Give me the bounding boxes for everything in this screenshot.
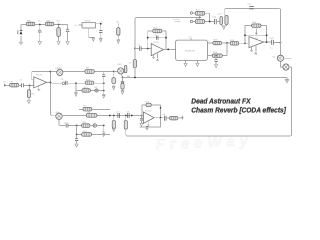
svg-text:TL072: TL072 [36, 74, 43, 76]
capacitor C24 [121, 78, 124, 83]
node out flag [181, 116, 184, 120]
wire 9V input rail [21, 24, 68, 26]
resistor R12 [170, 116, 178, 120]
ground [140, 123, 143, 126]
node 9V [37, 20, 41, 25]
trimmer VR1 [55, 68, 63, 76]
ground [57, 42, 60, 45]
ground [184, 60, 187, 66]
node [75, 82, 77, 84]
wire [24, 85, 34, 87]
wire feedback lower [148, 37, 166, 39]
resistor R11a [195, 10, 205, 16]
svg-text:BTDR-2H: BTDR-2H [185, 51, 195, 53]
wire regulator gnd pin [89, 28, 94, 37]
node [266, 41, 268, 43]
resistor R4 [124, 66, 127, 73]
node [113, 115, 115, 117]
wire [205, 13, 210, 21]
resistor R20 [85, 79, 94, 84]
wire vref to opamp [140, 118, 161, 127]
svg-text:Dead Astronaut FX: Dead Astronaut FX [191, 96, 251, 105]
capacitor C14 [215, 55, 218, 64]
ground [121, 91, 124, 95]
resistor R5 [112, 72, 116, 87]
svg-text:TL072: TL072 [145, 110, 152, 112]
resistor R3 [85, 68, 94, 74]
capacitor C16 [38, 25, 41, 42]
svg-text:DWELL: DWELL [55, 68, 63, 70]
capacitor C3 electrolytic [129, 49, 137, 78]
capacitor C23 [102, 72, 105, 95]
svg-text:TL072: TL072 [153, 42, 160, 44]
wire [205, 21, 214, 23]
wire opamp out [154, 117, 164, 119]
capacitor C4 [138, 45, 142, 51]
wire [222, 42, 231, 44]
wire opamp3 out [164, 49, 176, 51]
resistor R22 feedback [148, 27, 166, 49]
capacitor C21 electrolytic [222, 13, 228, 24]
capacitor C9 [162, 114, 166, 121]
capacitor C7a [117, 111, 121, 118]
wire [283, 57, 292, 59]
ground [112, 128, 115, 131]
wire vref rail [123, 77, 288, 79]
wire row2 [76, 83, 104, 92]
resistor R18 [213, 40, 222, 45]
node vref [134, 48, 136, 50]
resistor R9 [112, 116, 115, 131]
ground [102, 95, 105, 99]
wire [178, 117, 181, 119]
ground [152, 55, 155, 59]
wire brick out2 [207, 55, 212, 57]
ground [99, 38, 102, 42]
node [160, 117, 162, 119]
ground [112, 86, 115, 90]
svg-text:Chasm Reverb [CODA effects]: Chasm Reverb [CODA effects] [191, 106, 286, 115]
node [50, 71, 52, 73]
node [209, 21, 211, 23]
pot DEPTH feedback [245, 22, 267, 43]
node [76, 125, 78, 127]
ground [285, 78, 289, 84]
resistor R26 [45, 20, 54, 26]
resistor R14 [82, 131, 92, 136]
capacitor C19 [96, 31, 102, 38]
node vref stub [255, 45, 258, 54]
wire [69, 125, 82, 127]
node [266, 34, 268, 36]
ground [27, 98, 30, 104]
wire op2 out row [50, 81, 103, 84]
node [103, 90, 105, 92]
wire send rail [50, 71, 113, 73]
resistor R25 [26, 20, 35, 26]
capacitor C5 [153, 35, 158, 40]
resistor R11 feedback [142, 102, 161, 121]
op-amp U3a [151, 42, 163, 56]
wire regulator input [78, 24, 82, 26]
node [147, 48, 149, 50]
wire [117, 23, 119, 40]
node vref stub [156, 54, 159, 61]
node [244, 42, 246, 44]
wire [167, 117, 170, 119]
wire bottom loop [126, 67, 292, 136]
node [109, 115, 111, 117]
ground [147, 121, 150, 126]
wire [19, 85, 21, 87]
op-amp U2a [143, 110, 154, 123]
wire [222, 43, 227, 56]
ground [250, 47, 253, 52]
ground [146, 127, 149, 130]
wire lower row [77, 126, 110, 135]
capacitor C13 [269, 38, 274, 50]
resistor R10 [124, 116, 127, 130]
capacitor C11 [75, 135, 78, 144]
svg-text:MIX: MIX [118, 64, 122, 66]
diode D1 [18, 30, 23, 34]
node [103, 82, 105, 84]
op-amp U3b [249, 37, 264, 48]
wire [142, 48, 152, 50]
capacitor C17 electrolytic [54, 25, 60, 42]
wire pot wiper [121, 74, 123, 78]
wire feedback [32, 72, 34, 80]
resistor R2 [27, 86, 35, 98]
node [29, 85, 31, 87]
ground [215, 65, 218, 68]
capacitor C22 electrolytic [113, 28, 120, 36]
ground [19, 42, 23, 45]
ground [37, 86, 40, 91]
node [147, 37, 149, 39]
node input flag [4, 82, 7, 87]
ground [38, 41, 41, 45]
connector P2 [190, 20, 195, 22]
node [122, 77, 124, 79]
svg-text:FreeWay: FreeWay [155, 132, 253, 152]
node [226, 42, 228, 44]
pot MIX [114, 64, 124, 74]
node [280, 42, 282, 44]
wire diode branch [20, 25, 22, 43]
capacitor C18 [66, 30, 69, 41]
capacitor C2 [127, 76, 130, 78]
capacitor C1 [20, 80, 24, 88]
node to +9v flag [174, 16, 202, 23]
capacitor C6 [61, 79, 68, 85]
node [160, 107, 162, 109]
resistor R8 [86, 112, 97, 117]
capacitor C10 [64, 122, 69, 127]
node [244, 34, 246, 36]
node [50, 81, 52, 83]
resistor R6 [121, 83, 124, 90]
ground [75, 144, 78, 147]
node [134, 77, 136, 79]
pot TONE [281, 61, 290, 70]
reverb module BTDR-2H [176, 36, 208, 60]
node [76, 134, 78, 136]
ground [196, 60, 199, 66]
regulator U2 78L05 [82, 21, 96, 29]
resistor R1 [10, 81, 19, 87]
op-amp U1a [34, 74, 47, 88]
svg-text:TL072: TL072 [252, 38, 259, 40]
resistor R21 [82, 87, 91, 92]
node +5v [99, 21, 103, 24]
wire [79, 109, 110, 111]
resistor R7 [83, 106, 92, 111]
ground [92, 38, 95, 42]
wire [67, 25, 69, 30]
node [146, 126, 148, 128]
resistor R19 [212, 52, 222, 57]
wire opamp4 out [264, 41, 271, 43]
ground [74, 93, 77, 97]
wire vref flag [135, 18, 199, 49]
ground [66, 42, 69, 45]
node [165, 37, 167, 39]
svg-text:supply: supply [175, 21, 182, 23]
node [103, 125, 105, 127]
node [167, 49, 169, 51]
wire [135, 48, 139, 50]
wire regulator output [96, 24, 101, 31]
ground [221, 25, 226, 30]
capacitor C7b [126, 111, 130, 118]
ground [117, 40, 120, 44]
node 9Va [56, 20, 60, 25]
wire top feedback loop [225, 9, 281, 56]
wire opamp1 output [32, 72, 51, 115]
resistor R12a [195, 18, 205, 24]
node [131, 115, 133, 117]
wire [274, 41, 281, 43]
resistor R15 [230, 40, 239, 45]
node [113, 71, 115, 73]
wire [7, 85, 10, 87]
wire [239, 42, 248, 44]
node [125, 115, 127, 117]
pot LEVEL [272, 55, 284, 61]
wire [289, 66, 291, 68]
pot VOLUME [50, 112, 62, 119]
svg-text:78L05: 78L05 [84, 21, 91, 23]
wire mix row [62, 115, 143, 117]
capacitor C20 [212, 17, 217, 25]
connector P1 [190, 12, 195, 14]
diode D2 [90, 124, 104, 127]
resistor R13 [82, 122, 90, 127]
diode D3 [94, 87, 98, 92]
capacitor C12 [247, 4, 253, 9]
wire [217, 21, 220, 23]
resistor R17 [218, 14, 223, 24]
wire brick out1 [207, 42, 213, 44]
capacitor C8 [140, 115, 143, 123]
ground [102, 126, 106, 137]
wire jack sleeve row [59, 119, 65, 125]
